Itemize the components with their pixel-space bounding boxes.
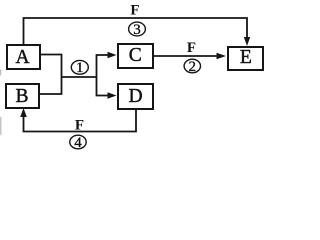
arrow into B bottom — [20, 108, 27, 117]
wire merge to branch node — [62, 76, 97, 78]
box C — [118, 44, 153, 68]
arrow into E top — [244, 37, 250, 46]
svg-text:F: F — [75, 118, 84, 134]
svg-text:E: E — [240, 47, 252, 68]
arrow into C left — [108, 52, 117, 58]
svg-text:A: A — [15, 47, 29, 68]
node circled 3 — [129, 22, 146, 38]
node circled 1 — [71, 60, 88, 76]
scan speck lower-left — [0, 116, 2, 136]
svg-text:F: F — [130, 3, 139, 19]
wire branch to D — [97, 77, 109, 96]
box E — [228, 47, 263, 70]
arrow into D left — [108, 92, 117, 98]
svg-text:C: C — [129, 45, 142, 66]
wire B-right to merge — [39, 77, 62, 94]
svg-text:D: D — [128, 86, 142, 107]
arrow into E left — [217, 53, 227, 59]
label F (C to E) — [187, 40, 196, 56]
box B — [6, 84, 39, 108]
wire D-bottom to B-bottom (feedback path 4) — [24, 109, 137, 132]
scan speck left edge — [0, 69, 2, 76]
wire C to E — [153, 55, 217, 57]
label F (top) — [130, 3, 139, 19]
wire A-right to merge — [40, 55, 62, 78]
box A — [7, 45, 40, 69]
svg-text:B: B — [15, 86, 28, 107]
svg-text:F: F — [187, 40, 196, 56]
wire branch to C — [97, 55, 109, 77]
svg-text:3: 3 — [133, 22, 141, 38]
box D — [118, 84, 153, 109]
svg-text:2: 2 — [189, 59, 197, 75]
svg-text:1: 1 — [76, 60, 84, 76]
svg-text:4: 4 — [74, 135, 82, 151]
node circled 4 — [70, 135, 86, 151]
node circled 2 — [184, 59, 200, 75]
label F (bottom) — [75, 118, 84, 134]
wire A-top to E-top (feedback path 3) — [24, 18, 248, 44]
